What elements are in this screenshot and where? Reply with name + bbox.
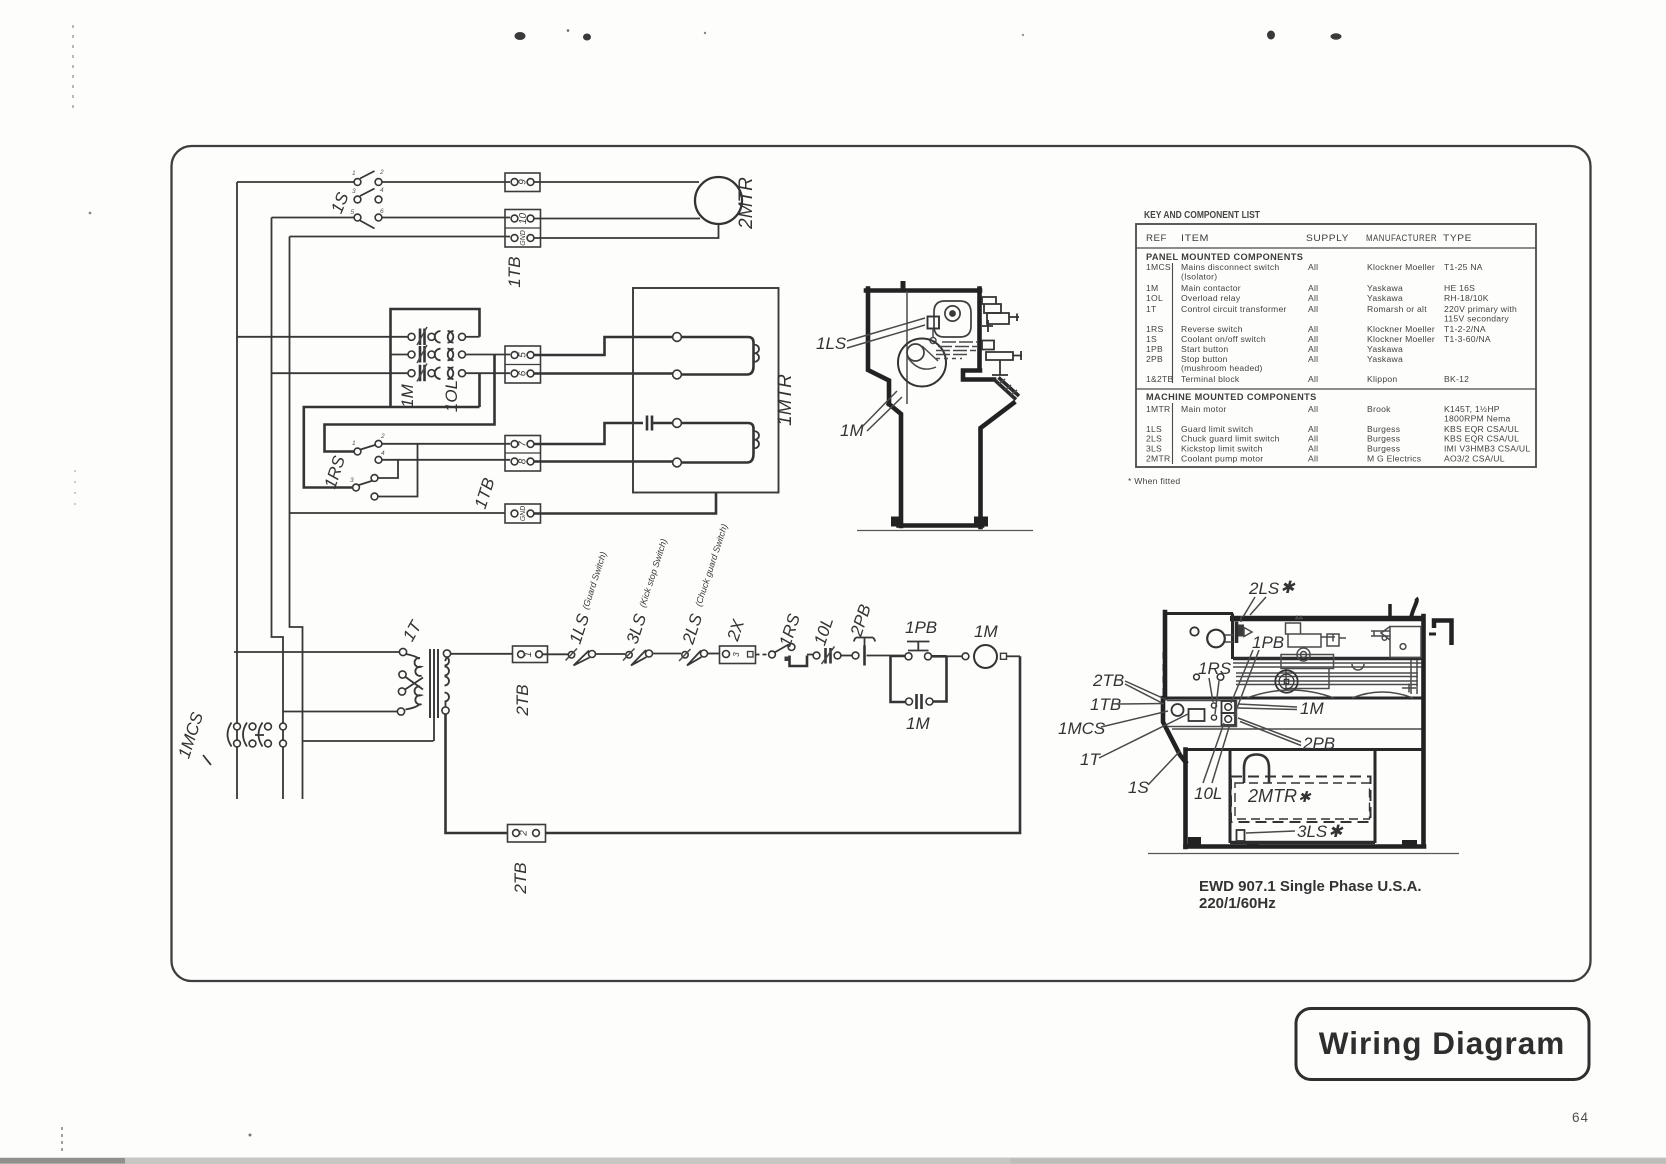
svg-text:2TB: 2TB	[1092, 671, 1124, 690]
side view top cap mark	[901, 281, 906, 291]
svg-text:2MTR✱: 2MTR✱	[1247, 786, 1312, 806]
terminal block 1TB GND lower	[505, 504, 541, 523]
svg-text:1M: 1M	[840, 421, 864, 440]
svg-text:1LS: 1LS	[816, 334, 847, 353]
wire 2LS to 2X	[708, 653, 720, 655]
wire L3 to terminal GND	[290, 236, 511, 238]
junction tap down from row2 output	[325, 355, 495, 452]
svg-text:1M: 1M	[906, 714, 930, 733]
svg-text:1S: 1S	[1128, 778, 1149, 797]
svg-text:KEY AND COMPONENT LIST: KEY AND COMPONENT LIST	[1144, 210, 1260, 221]
svg-text:All: All	[1308, 324, 1318, 334]
svg-text:1RS: 1RS	[1146, 324, 1163, 334]
selector contact 1RS aux	[769, 644, 813, 666]
svg-text:1OL: 1OL	[442, 380, 461, 412]
side view inner panel divider	[906, 291, 908, 404]
svg-text:7: 7	[518, 441, 529, 447]
wire coil to return	[1007, 655, 1021, 657]
svg-text:1: 1	[352, 170, 356, 177]
front right edge	[1421, 616, 1426, 846]
Wiring Diagram title box	[1296, 1009, 1589, 1080]
electrical panel outline	[1167, 701, 1237, 727]
wire terminal 6 to 1MTR winding	[534, 372, 673, 375]
svg-text:Brook: Brook	[1367, 404, 1391, 414]
svg-text:Start button: Start button	[1181, 344, 1228, 354]
svg-text:Main motor: Main motor	[1181, 404, 1226, 414]
svg-text:220V primary with: 220V primary with	[1444, 304, 1517, 314]
wire 1T secondary to 2TB 1	[451, 653, 513, 655]
front spindle boss	[1207, 630, 1225, 648]
1RS switch buttons	[1194, 674, 1200, 680]
svg-text:PANEL MOUNTED COMPONENTS: PANEL MOUNTED COMPONENTS	[1146, 252, 1303, 262]
svg-text:2TB: 2TB	[511, 862, 530, 894]
svg-text:1PB: 1PB	[905, 618, 937, 637]
svg-text:Burgess: Burgess	[1367, 444, 1400, 454]
contactor row 3	[272, 364, 511, 382]
svg-text:IMI V3HMB3 CSA/UL: IMI V3HMB3 CSA/UL	[1444, 444, 1530, 454]
splash guard curves	[1247, 690, 1413, 698]
tailstock	[1371, 627, 1421, 658]
svg-text:Coolant pump motor: Coolant pump motor	[1181, 454, 1263, 464]
header rule	[1136, 247, 1536, 249]
svg-text:2PB: 2PB	[1302, 734, 1335, 753]
terminal block 2TB 2	[508, 825, 546, 843]
1T transformer cover plate	[1189, 709, 1205, 721]
start button 1PB with 1M hold-in contact	[891, 642, 947, 710]
side view cover blob	[934, 301, 971, 337]
svg-text:1M: 1M	[1146, 283, 1158, 293]
svg-text:All: All	[1308, 293, 1318, 303]
front cabinet opening pillars	[1229, 750, 1232, 844]
svg-text:Coolant on/off switch: Coolant on/off switch	[1181, 334, 1266, 344]
side view bed lines	[936, 342, 977, 355]
svg-text:* When fitted: * When fitted	[1128, 476, 1180, 486]
right column cover lines	[1411, 660, 1417, 694]
front headstock small hole	[1190, 627, 1198, 635]
svg-text:2: 2	[380, 433, 385, 440]
capacitor in 1MTR start winding	[647, 416, 652, 431]
wire terminal 7 to capacitor and winding	[534, 423, 643, 444]
side view pedestal outline	[889, 404, 901, 526]
svg-text:4: 4	[380, 187, 384, 194]
reverse switch 1RS power poles	[350, 433, 385, 500]
wire 1RS contact2 to terminal 7	[382, 443, 510, 445]
svg-text:1PB: 1PB	[1146, 344, 1163, 354]
svg-text:1MCS: 1MCS	[1058, 719, 1106, 738]
svg-text:2PB: 2PB	[1146, 354, 1163, 364]
svg-text:Reverse switch: Reverse switch	[1181, 324, 1243, 334]
svg-text:2LS✱: 2LS✱	[1248, 578, 1296, 598]
svg-text:All: All	[1308, 334, 1318, 344]
svg-text:Romarsh or alt: Romarsh or alt	[1367, 304, 1427, 314]
svg-text:3: 3	[732, 652, 741, 657]
terminal block 1TB 7 8	[505, 436, 541, 472]
series link box around 1M 1OL	[391, 309, 480, 407]
svg-text:3LS✱: 3LS✱	[1297, 822, 1344, 841]
svg-text:Overload relay: Overload relay	[1181, 293, 1241, 303]
table border	[1136, 224, 1536, 467]
coil output terminal	[1001, 653, 1007, 659]
dashed wire 2X to 1RS aux	[756, 654, 769, 656]
svg-text:4: 4	[381, 450, 385, 457]
svg-text:All: All	[1308, 354, 1318, 364]
svg-text:T1-25 NA: T1-25 NA	[1444, 262, 1483, 272]
svg-text:Yaskawa: Yaskawa	[1367, 293, 1403, 303]
svg-text:2MTR: 2MTR	[1146, 454, 1170, 464]
disconnect switch 1MCS	[228, 723, 287, 747]
2MTR dashed enclosure	[1231, 777, 1371, 823]
svg-text:M G Electrics: M G Electrics	[1367, 454, 1421, 464]
svg-text:1: 1	[352, 440, 356, 447]
wire GND lower to 1MTR frame	[534, 493, 716, 514]
svg-text:Yaskawa: Yaskawa	[1367, 354, 1403, 364]
overload contact 1OL	[813, 647, 852, 665]
transformer 1T	[397, 648, 450, 741]
right end bracket	[1434, 621, 1452, 646]
svg-text:Klockner Moeller: Klockner Moeller	[1367, 334, 1435, 344]
svg-text:Wiring Diagram: Wiring Diagram	[1319, 1025, 1566, 1061]
svg-text:6: 6	[518, 370, 529, 376]
wire L3 tap to terminal GND lower	[290, 512, 506, 514]
apron handwheel	[1275, 670, 1297, 692]
svg-text:T1-2-2/NA: T1-2-2/NA	[1444, 324, 1486, 334]
svg-text:Kickstop limit switch: Kickstop limit switch	[1181, 444, 1263, 454]
svg-text:Burgess: Burgess	[1367, 434, 1400, 444]
kickstop switch 3LS	[1237, 830, 1245, 841]
terminal block 1TB 9	[505, 173, 540, 192]
terminal block 2TB 1	[513, 646, 548, 663]
front leadscrew lines	[1236, 673, 1418, 685]
svg-text:All: All	[1308, 283, 1318, 293]
svg-text:Terminal block: Terminal block	[1181, 374, 1240, 384]
svg-text:MACHINE MOUNTED COMPONENTS: MACHINE MOUNTED COMPONENTS	[1146, 392, 1317, 402]
wire terminal 10 to 2MTR	[534, 218, 700, 220]
wire 1LS to 3LS	[596, 653, 626, 655]
wire terminal 5 to 1MTR winding	[534, 337, 673, 355]
svg-text:BK-12: BK-12	[1444, 374, 1469, 384]
svg-text:Klippon: Klippon	[1367, 374, 1397, 384]
side view cover hub	[945, 306, 960, 321]
svg-text:All: All	[1308, 424, 1318, 434]
svg-text:1T: 1T	[1080, 750, 1101, 769]
wire 1S pole1 to terminal 9	[382, 181, 510, 183]
svg-text:1MTR: 1MTR	[1146, 404, 1170, 414]
wire 1RS pole3 lower contact to wire 7	[378, 444, 418, 497]
svg-text:All: All	[1308, 262, 1318, 272]
saddle curve	[1352, 664, 1364, 670]
1MTR run winding	[673, 333, 759, 379]
front bed rails	[1233, 657, 1422, 661]
front headstock divider	[1231, 614, 1234, 660]
scan artifact: bottom edge band	[0, 1158, 1666, 1164]
svg-text:2: 2	[519, 830, 530, 837]
svg-text:1&2TB: 1&2TB	[1146, 374, 1174, 384]
link box bottom rail to 1RS	[304, 407, 480, 488]
front panel slant edge	[1163, 698, 1186, 762]
svg-text:115V secondary: 115V secondary	[1444, 314, 1509, 324]
svg-text:KBS EQR CSA/UL: KBS EQR CSA/UL	[1444, 424, 1519, 434]
switch 1S	[351, 169, 385, 229]
wire to 1M coil	[947, 655, 963, 657]
svg-text:64: 64	[1572, 1110, 1589, 1125]
wire L2 to 1T primary bottom	[283, 711, 397, 713]
svg-text:T1-3-60/NA: T1-3-60/NA	[1444, 334, 1491, 344]
motor 2MTR	[695, 177, 742, 224]
cross slide stack	[1286, 616, 1347, 662]
svg-text:All: All	[1308, 454, 1318, 464]
wire terminal 9 to 2MTR	[534, 181, 699, 183]
svg-text:ITEM: ITEM	[1181, 233, 1209, 243]
svg-text:8: 8	[518, 458, 529, 464]
contactor 1M / overload 1OL row 1	[408, 327, 480, 345]
svg-text:2TB: 2TB	[513, 684, 532, 716]
svg-text:2MTR: 2MTR	[736, 177, 757, 230]
1MCS leader stroke	[203, 755, 211, 765]
svg-text:1MCS: 1MCS	[1146, 262, 1171, 272]
svg-text:Yaskawa: Yaskawa	[1367, 283, 1403, 293]
svg-text:GND: GND	[520, 506, 527, 522]
svg-text:All: All	[1308, 404, 1318, 414]
wire 1T secondary bottom down	[446, 714, 508, 833]
svg-text:9: 9	[518, 179, 529, 185]
svg-text:1M: 1M	[398, 383, 417, 407]
wire L3 to 1T core screen	[303, 740, 434, 742]
svg-text:Yaskawa: Yaskawa	[1367, 344, 1403, 354]
front pedestal left edge	[1183, 750, 1188, 848]
scan artifact: ink dots top	[515, 32, 526, 40]
stop button 2PB	[852, 638, 890, 666]
bus wire L1 vertical	[236, 182, 238, 799]
svg-text:3: 3	[350, 477, 354, 484]
contactor row 2	[391, 345, 511, 363]
svg-text:REF: REF	[1146, 233, 1167, 243]
coolant pump hood	[1244, 755, 1269, 784]
control wire 2TB1 to 1LS	[543, 653, 569, 655]
chuck guard 2LS bracket	[1235, 622, 1239, 644]
bus wire L2 vertical	[272, 218, 284, 800]
side view notch outline	[963, 371, 994, 380]
svg-text:10: 10	[518, 213, 529, 225]
svg-text:5: 5	[351, 209, 355, 216]
svg-text:1: 1	[523, 652, 534, 658]
svg-text:1T: 1T	[1146, 304, 1157, 314]
svg-text:All: All	[1308, 434, 1318, 444]
svg-text:KBS EQR CSA/UL: KBS EQR CSA/UL	[1444, 434, 1519, 444]
front bottom edge	[1186, 844, 1425, 849]
limit switch 2LS	[679, 649, 708, 666]
front apron band rails	[1163, 697, 1425, 700]
front ground line	[1148, 853, 1459, 855]
svg-text:Guard limit switch: Guard limit switch	[1181, 424, 1253, 434]
terminal block 1TB 10 GND	[505, 210, 541, 248]
front left edge hinge marks	[1163, 652, 1168, 659]
limit switch 1LS body	[928, 317, 940, 329]
section rule	[1136, 388, 1536, 390]
front headstock top	[1163, 612, 1233, 615]
connector 2X	[720, 646, 756, 664]
svg-text:1M: 1M	[974, 622, 998, 641]
svg-text:2: 2	[379, 169, 384, 176]
svg-text:AO3/2 CSA/UL: AO3/2 CSA/UL	[1444, 454, 1505, 464]
svg-text:10L: 10L	[1194, 784, 1222, 803]
wire 1RS contact4 jog to pole3 upper contact	[378, 460, 398, 478]
top levers	[1388, 604, 1392, 617]
wire 1RS contact4 to terminal 8	[398, 459, 510, 461]
svg-text:1OL: 1OL	[1146, 293, 1163, 303]
svg-text:RH-18/10K: RH-18/10K	[1444, 293, 1489, 303]
svg-text:1LS: 1LS	[1146, 424, 1162, 434]
svg-text:All: All	[1308, 304, 1318, 314]
wire 3LS to 2LS	[653, 653, 682, 655]
svg-text:All: All	[1308, 444, 1318, 454]
front machine top rail	[1230, 616, 1424, 622]
terminal block 1TB 5 6	[505, 346, 541, 383]
svg-text:(Isolator): (Isolator)	[1181, 272, 1217, 282]
svg-text:220/1/60Hz: 220/1/60Hz	[1199, 895, 1276, 912]
control circuit return wire	[546, 656, 1021, 833]
side view chip chute	[993, 378, 1019, 400]
svg-text:SUPPLY: SUPPLY	[1306, 233, 1349, 243]
svg-text:Burgess: Burgess	[1367, 424, 1400, 434]
svg-text:Klockner Moeller: Klockner Moeller	[1367, 262, 1435, 272]
ref column divider	[1172, 263, 1174, 383]
svg-text:6: 6	[380, 208, 384, 215]
coil 1M	[974, 645, 997, 668]
limit switch 1LS	[566, 649, 596, 666]
side view ground line	[857, 530, 1033, 532]
diagram outer border frame	[172, 146, 1591, 981]
svg-text:1PB: 1PB	[1252, 633, 1284, 652]
svg-text:GND: GND	[520, 230, 527, 246]
svg-text:1MTR: 1MTR	[775, 374, 796, 426]
side view cross slide cluster	[982, 297, 1022, 375]
svg-text:Control circuit transformer: Control circuit transformer	[1181, 304, 1287, 314]
svg-text:1M: 1M	[1300, 699, 1324, 718]
svg-text:MANUFACTURER: MANUFACTURER	[1366, 233, 1437, 243]
svg-text:Main contactor: Main contactor	[1181, 283, 1241, 293]
front feet	[1188, 837, 1201, 846]
svg-text:2LS: 2LS	[1146, 434, 1162, 444]
wire L1 to 1S pole 1	[237, 181, 354, 183]
wire L1 to 1T primary	[234, 651, 399, 653]
front headstock left edge	[1163, 612, 1168, 698]
svg-text:1TB: 1TB	[505, 256, 524, 287]
scan artifact: margin dashes	[72, 25, 74, 108]
motor 1MTR frame box	[633, 288, 779, 493]
wire L1 tap to contactor row 1	[237, 336, 408, 338]
svg-text:3: 3	[352, 188, 356, 195]
svg-text:Mains disconnect switch: Mains disconnect switch	[1181, 262, 1279, 272]
svg-text:TYPE: TYPE	[1443, 233, 1472, 243]
wire terminal GND to 2MTR	[534, 225, 719, 239]
svg-text:All: All	[1308, 344, 1318, 354]
svg-text:5: 5	[518, 352, 529, 358]
svg-text:1TB: 1TB	[1090, 695, 1121, 714]
pushbutton block 1PB 2PB	[1222, 701, 1236, 725]
svg-text:EWD 907.1 Single Phase U.S.A: EWD 907.1 Single Phase U.S.A.	[1199, 878, 1422, 895]
svg-text:K145T, 1½HP: K145T, 1½HP	[1444, 404, 1500, 414]
svg-text:1800RPM Nema: 1800RPM Nema	[1444, 414, 1511, 424]
svg-text:1S: 1S	[1146, 334, 1157, 344]
1MTR start winding	[673, 419, 759, 467]
side view feet	[891, 517, 902, 527]
svg-text:HE 16S: HE 16S	[1444, 283, 1475, 293]
svg-text:All: All	[1308, 374, 1318, 384]
svg-text:(mushroom headed): (mushroom headed)	[1181, 363, 1263, 373]
svg-text:Chuck guard limit switch: Chuck guard limit switch	[1181, 434, 1280, 444]
bus wire L3 vertical	[290, 237, 303, 800]
1MCS operator knob	[1172, 704, 1184, 716]
front carriage apron	[1281, 655, 1334, 689]
side view headstock outline	[866, 288, 980, 293]
wire terminal 8 to 1MTR winding	[534, 460, 673, 463]
svg-text:3LS: 3LS	[1146, 444, 1162, 454]
svg-text:Klockner Moeller: Klockner Moeller	[1367, 324, 1435, 334]
limit switch 3LS	[623, 649, 653, 666]
side view pulley circle	[898, 339, 946, 387]
wire 1S pole3 to terminal 10	[272, 217, 355, 219]
svg-text:1RS: 1RS	[1198, 659, 1232, 678]
